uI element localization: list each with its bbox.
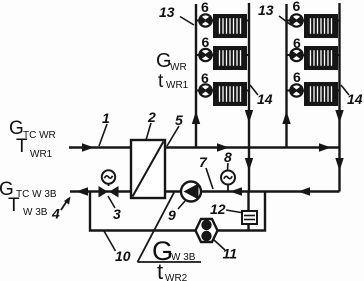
wire: supply riser 1 [195, 4, 197, 148]
arrow: return flow mid [230, 187, 242, 196]
radiator group2 row2 [305, 47, 337, 69]
arrow: up supply riser 1 [192, 111, 200, 124]
svg-text:6: 6 [293, 35, 301, 51]
radiator valve 6 g1r1 [199, 14, 211, 26]
svg-text:6: 6 [293, 0, 301, 14]
svg-text:9: 9 [168, 207, 176, 223]
svg-text:t: t [158, 71, 164, 92]
label 12 [210, 201, 241, 217]
radiator valve 6 g1r2 [199, 49, 211, 61]
svg-text:TC W 3B: TC W 3B [16, 189, 57, 200]
label 13 group1 [159, 4, 194, 25]
svg-text:5: 5 [175, 112, 183, 128]
radiator valve 6 g1r3 [199, 84, 211, 96]
svg-text:6: 6 [293, 69, 301, 85]
svg-text:6: 6 [201, 70, 209, 86]
wire: regulator stem lower [247, 224, 249, 231]
node label G WR / t WR1 [156, 50, 189, 92]
svg-text:WR: WR [170, 62, 187, 73]
wire: return riser 1 [248, 3, 250, 192]
node label G TC WR / T WR1 [9, 118, 56, 160]
svg-text:12: 12 [210, 201, 226, 217]
radiator group1 row3 [214, 83, 246, 105]
svg-text:6: 6 [201, 0, 209, 15]
label 2 leader [146, 123, 151, 140]
svg-text:7: 7 [199, 154, 208, 170]
wire: supply riser 2 [285, 4, 287, 148]
arrow: down return riser 1 upper [245, 110, 253, 123]
radiator group1 row2 [214, 47, 246, 69]
svg-text:T: T [8, 195, 20, 216]
svg-text:T: T [16, 136, 28, 157]
radiator valve 6 g2r2 [290, 49, 302, 61]
arrow: return flow right [298, 187, 310, 196]
thermometer 8 [221, 171, 235, 192]
svg-text:13: 13 [258, 2, 274, 18]
label 5 leader [167, 126, 179, 146]
arrow: return flow left [76, 187, 88, 196]
radiator group1 row1 [214, 15, 246, 37]
svg-text:W 3B: W 3B [23, 207, 48, 218]
wire: radiator stubs group1 [196, 21, 249, 91]
svg-text:13: 13 [159, 4, 175, 20]
svg-text:2: 2 [147, 109, 156, 125]
arrow: supply flow right [319, 143, 331, 152]
wire: return riser 2 [338, 3, 340, 192]
svg-text:t: t [157, 259, 163, 281]
label 8 [224, 149, 232, 170]
regulator 12 [242, 211, 257, 224]
svg-text:WR2: WR2 [165, 273, 188, 281]
wire: regulator stem upper [247, 192, 249, 212]
heat exchanger 2 [131, 140, 165, 198]
node label G TC W3B / T W3B [0, 179, 57, 218]
arrow: up supply riser 2 [282, 111, 290, 124]
label 7 [199, 154, 213, 189]
label 4 with arrow [51, 197, 71, 222]
radiator group2 row3 [305, 83, 337, 105]
svg-text:8: 8 [224, 149, 232, 165]
label 11 [214, 240, 237, 262]
label 10 [104, 231, 131, 264]
wire: bypass left drop [90, 192, 265, 231]
control valve 3 with actuator [99, 170, 119, 197]
svg-text:WR1: WR1 [30, 149, 53, 160]
arrow: down return riser 2 lower [335, 158, 343, 171]
svg-text:10: 10 [115, 248, 131, 264]
radiator group2 row1 [305, 15, 337, 37]
label 3 [108, 196, 121, 222]
svg-text:4: 4 [51, 206, 60, 222]
flow meter 11 [196, 219, 218, 242]
arrow: supply flow mid [217, 143, 229, 152]
wire: radiator stubs group2 [287, 21, 340, 91]
arrow: down return riser 2 upper [335, 110, 343, 123]
label 14 group2 [341, 85, 363, 107]
radiator valve 6 g2r3 [290, 84, 302, 96]
svg-text:3: 3 [113, 206, 121, 222]
radiator valve 6 g2r1 [290, 14, 302, 26]
wire: supply main pipe [69, 146, 340, 148]
arrow: down return riser 1 lower [245, 158, 253, 171]
label 1 leader [99, 124, 107, 146]
wire: return main pipe [70, 190, 340, 192]
pump 9 [181, 182, 201, 202]
svg-text:WR1: WR1 [166, 80, 189, 91]
label 14 group1 [250, 85, 273, 107]
svg-text:11: 11 [223, 246, 238, 262]
svg-text:W 3B: W 3B [171, 252, 196, 263]
svg-text:14: 14 [347, 91, 363, 107]
label 13 group2 [258, 2, 291, 25]
svg-text:14: 14 [257, 91, 273, 107]
arrow: supply flow left [82, 143, 94, 152]
label 9 [168, 201, 185, 223]
svg-text:TC WR: TC WR [23, 130, 56, 141]
svg-text:6: 6 [202, 34, 210, 50]
svg-text:1: 1 [102, 110, 110, 126]
node label G W3B / t WR2 callout [138, 193, 202, 281]
